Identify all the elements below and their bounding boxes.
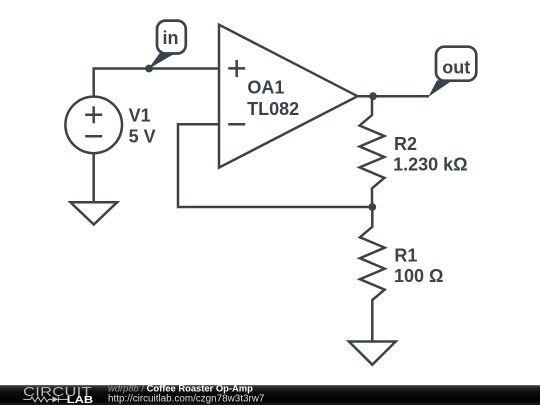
- ground below R1: [349, 342, 396, 365]
- ground below V1: [70, 202, 117, 224]
- diode triangle: [52, 396, 58, 402]
- label R2 1.230 kOhm: [393, 134, 468, 175]
- node at output branch (junction dot): [369, 92, 377, 100]
- svg-text:in: in: [163, 28, 179, 48]
- flag pointer for out: [428, 80, 452, 96]
- svg-text:wdrp8b / Coffee Roaster Op-Amp: wdrp8b / Coffee Roaster Op-Amp: [108, 382, 253, 393]
- svg-text:R2: R2: [394, 134, 417, 154]
- node flag out: [436, 47, 476, 81]
- svg-text:R1: R1: [394, 245, 417, 265]
- svg-text:http://circuitlab.com/czgn78w3: http://circuitlab.com/czgn78w3t3rw7: [108, 393, 264, 404]
- node in (junction dot): [145, 65, 153, 73]
- node flag in: [157, 21, 186, 54]
- label V1 5 V: [129, 106, 156, 147]
- svg-text:V1: V1: [129, 106, 151, 126]
- svg-text:OA1: OA1: [247, 78, 284, 98]
- svg-text:LAB: LAB: [67, 394, 93, 405]
- CircuitLab logo: wire with resistor and diode: [23, 396, 69, 402]
- output wire from op-amp apex to out flag: [356, 95, 429, 98]
- svg-text:100 Ω: 100 Ω: [394, 266, 443, 286]
- op-amp OA1 triangle: [219, 25, 358, 168]
- wire V1 bottom to ground: [92, 153, 95, 202]
- flag pointer for in: [148, 53, 176, 70]
- voltage source V1: [65, 97, 122, 154]
- resistor R2: [360, 96, 385, 207]
- label OA1 TL082: [247, 78, 299, 120]
- feedback wire from inverting input down and right to R2/R1 junction: [178, 124, 372, 207]
- node between R2 and R1 (junction dot): [368, 203, 376, 211]
- op-amp + input marker: [228, 60, 245, 77]
- op-amp - input marker: [228, 123, 245, 126]
- wire from V1 top to op-amp non-inverting input: [94, 69, 219, 98]
- svg-text:1.230 kΩ: 1.230 kΩ: [393, 155, 468, 175]
- svg-text:TL082: TL082: [247, 99, 299, 119]
- svg-text:5 V: 5 V: [129, 127, 156, 147]
- label R1 100 Ohm: [394, 245, 443, 286]
- resistor R1: [360, 207, 385, 342]
- svg-text:out: out: [442, 57, 470, 77]
